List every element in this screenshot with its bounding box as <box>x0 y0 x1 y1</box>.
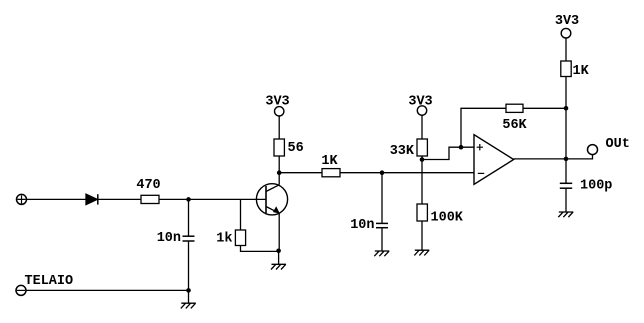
wire 56K to node G <box>523 107 566 109</box>
wire capacitor 100p to ground <box>565 188 567 212</box>
wire 1k bottom to emitter node <box>241 246 279 252</box>
svg-text:10n: 10n <box>350 218 374 233</box>
wire node C to resistor 1K <box>279 172 322 174</box>
svg-text:100K: 100K <box>431 210 464 225</box>
resistor 33K <box>390 139 428 159</box>
wire telaio to node T <box>26 289 189 291</box>
ground (emitter) <box>271 264 286 269</box>
svg-text:1K: 1K <box>573 64 590 79</box>
supply 3V3 (divider) <box>408 94 432 115</box>
wire node D jog to op-amp non-inverting input <box>422 147 474 159</box>
svg-text:TELAIO: TELAIO <box>25 274 74 289</box>
svg-text:OUt: OUt <box>606 137 630 152</box>
svg-text:100p: 100p <box>580 179 612 194</box>
wire 100K to ground <box>421 221 423 250</box>
node T telaio junction <box>186 288 191 293</box>
ground (100K) <box>414 250 429 255</box>
svg-text:56: 56 <box>288 141 304 156</box>
wire node A to transistor base <box>189 198 267 200</box>
wire supply to resistor 1K pull-up <box>565 38 567 61</box>
resistor 56 <box>274 139 304 156</box>
wire node A down to capacitor 10n <box>188 199 190 236</box>
wire node E to ground <box>278 251 280 264</box>
wire emitter down to node E <box>278 213 280 251</box>
wire 1K pull-up to node G <box>565 77 567 109</box>
wire collector up to node C <box>278 173 280 185</box>
wire supply to resistor 56 <box>278 116 280 139</box>
node C collector junction <box>277 170 282 175</box>
wire node H to output terminal <box>566 155 593 159</box>
diode <box>86 194 98 204</box>
wire 56 to node C <box>278 156 280 173</box>
capacitor 10n (filter) <box>350 218 388 233</box>
wire node B down to capacitor 10n <box>381 173 383 224</box>
telaio terminal (-) <box>16 274 73 296</box>
wire capacitor 10n to ground <box>381 228 383 251</box>
wire op-amp output to node H <box>514 158 566 160</box>
wire node H down to capacitor 100p <box>565 159 567 183</box>
wire base tap down to resistor 1k <box>240 199 242 230</box>
svg-text:56K: 56K <box>502 118 527 133</box>
svg-text:470: 470 <box>136 178 160 193</box>
capacitor 100p <box>560 179 613 194</box>
ground (10n filter) <box>374 251 389 256</box>
svg-text:3V3: 3V3 <box>408 94 432 109</box>
resistor 1k <box>216 230 245 247</box>
op-amp comparator <box>474 135 514 185</box>
node B junction <box>380 170 385 175</box>
node H output junction <box>564 157 569 162</box>
ground (100p) <box>558 212 573 217</box>
output terminal OUt <box>588 137 630 155</box>
resistor 1K (series) <box>321 154 340 177</box>
resistor 1K (pull-up) <box>561 61 590 79</box>
svg-text:33K: 33K <box>390 144 415 159</box>
wire node G down to output node <box>565 108 567 159</box>
transistor NPN <box>256 184 287 215</box>
wire feedback node F up and across to resistor 56K <box>461 108 506 147</box>
wire diode to resistor 470 <box>99 198 142 200</box>
supply 3V3 (output pull-up) <box>555 14 579 38</box>
node G pull-up junction <box>564 106 569 111</box>
node D divider junction <box>420 157 425 162</box>
wire 1K to node B <box>340 172 382 174</box>
supply 3V3 (collector) <box>265 94 289 116</box>
svg-text:10n: 10n <box>157 231 181 246</box>
wire node B to op-amp inverting input <box>382 172 474 174</box>
wire 470 to node A <box>159 198 189 200</box>
resistor 470 <box>136 178 160 204</box>
input terminal (+) <box>17 194 27 204</box>
svg-text:1K: 1K <box>321 154 338 169</box>
svg-text:3V3: 3V3 <box>555 14 579 29</box>
wire node T to ground <box>188 290 190 303</box>
wire input to diode <box>27 198 87 200</box>
resistor 100K <box>417 204 464 225</box>
node F feedback junction <box>459 145 464 150</box>
wire 33K to node D <box>421 156 423 160</box>
svg-text:3V3: 3V3 <box>265 94 289 109</box>
node A junction <box>186 197 191 202</box>
capacitor 10n (input filter) <box>157 231 195 246</box>
svg-text:1k: 1k <box>216 232 232 247</box>
node E emitter junction <box>276 249 281 254</box>
wire supply to resistor 33K <box>421 115 423 139</box>
wire capacitor 10n to telaio rail <box>188 241 190 290</box>
ground (telaio) <box>181 303 196 308</box>
wire node D down to resistor 100K <box>421 160 423 205</box>
resistor 56K <box>502 104 527 133</box>
